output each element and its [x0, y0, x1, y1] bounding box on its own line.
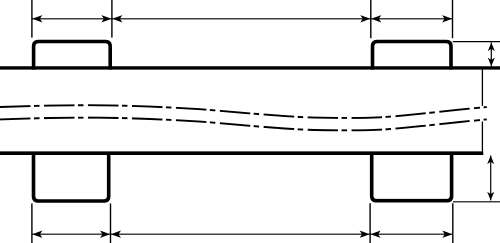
centerline upper final short dash after end line [484, 106, 487, 108]
wire: bottom extension line at right collar right edge [452, 203, 454, 243]
wire: top extension line at right collar right edge [452, 0, 454, 38]
wire: bottom dimension line segment 1 [32, 233, 111, 235]
arrowhead left, top dim 2 left end [112, 15, 122, 22]
centerline lower final short dash before end line [474, 119, 480, 122]
wire: bottom extension line at right collar left edge [369, 203, 371, 243]
arrowhead left, top dim 3 left end [371, 15, 381, 22]
centerline upper (dash-dot wavy) [0, 105, 471, 118]
arrowhead right, top dim 1 right end [101, 15, 111, 22]
centerline lower final short dash after end line [484, 118, 487, 120]
wire: bottom extension line at left collar right edge [110, 204, 112, 243]
pipe body top edge [0, 66, 500, 69]
arrowhead down, right bottom vertical dim [487, 192, 494, 201]
wire: top extension line at right collar left edge [370, 0, 372, 38]
arrowhead down, right top vertical dim [488, 58, 495, 67]
arrowhead up, right bottom vertical dim [487, 156, 494, 165]
collar top-right [373, 42, 452, 70]
arrowhead left, top dim 1 left end [32, 15, 42, 22]
centerline upper final short dash before end line [474, 107, 480, 110]
wire: bottom dimension line segment 3 [370, 233, 453, 235]
wire: top dimension line segment 3 [371, 18, 453, 20]
pipe body bottom edge [0, 151, 483, 155]
arrowhead right, top dim 2 right end [360, 15, 370, 22]
wire: extension of top-right collar top edge to right [453, 41, 500, 43]
wire: top extension line at left collar left edge [31, 0, 33, 38]
wire: pipe end vertical line lower segment [481, 122, 483, 152]
wire: pipe end vertical line upper segment [481, 70, 483, 106]
arrowhead right, bottom dim 1 right end [100, 231, 110, 238]
collar bottom-left [34, 152, 109, 201]
arrowhead up, right top vertical dim [488, 43, 495, 52]
wire: right vertical dimension line bottom [490, 156, 492, 201]
wire: extension of bottom-right collar bottom edge to right [453, 201, 500, 203]
wire: top extension line at left collar right edge [111, 0, 113, 38]
arrowhead left, bottom dim 3 left end [370, 231, 380, 238]
arrowhead right, bottom dim 2 right end [360, 231, 370, 238]
arrowhead left, bottom dim 2 left end [111, 231, 121, 238]
collar bottom-right [372, 152, 452, 201]
wire: bottom extension line at left collar left edge [31, 204, 33, 243]
wire: top dimension line segment 2 [112, 18, 371, 20]
arrowhead right, top dim 3 right end [442, 15, 452, 22]
arrowhead left, bottom dim 1 left end [32, 231, 42, 238]
collar top-left (thick rounded rectangle open at bottom) [34, 42, 111, 70]
wire: bottom dimension line segment 2 [111, 233, 371, 235]
centerline lower (dash-dot wavy) [0, 118, 471, 131]
wire: right vertical dimension line top [490, 43, 492, 67]
arrowhead right, bottom dim 3 right end [442, 231, 452, 238]
wire: top dimension line segment 1 [32, 18, 112, 20]
